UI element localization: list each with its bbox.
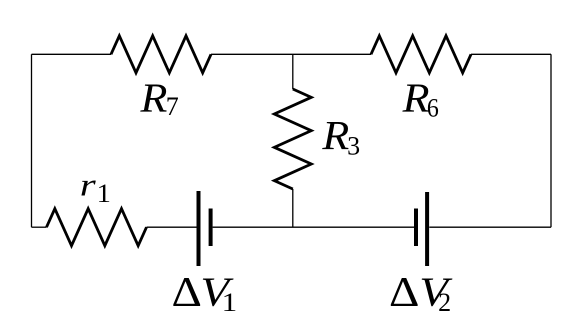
svg-text:R: R [321,113,349,159]
svg-text:R: R [402,75,430,121]
svg-text:1: 1 [222,288,238,317]
svg-text:1: 1 [97,179,111,208]
svg-text:Δ: Δ [389,268,419,315]
svg-text:r: r [80,167,97,203]
svg-text:Δ: Δ [171,268,201,315]
svg-text:R: R [139,75,167,121]
svg-text:7: 7 [166,92,179,121]
svg-text:2: 2 [438,288,451,317]
svg-text:3: 3 [347,131,360,160]
svg-text:6: 6 [427,95,439,123]
